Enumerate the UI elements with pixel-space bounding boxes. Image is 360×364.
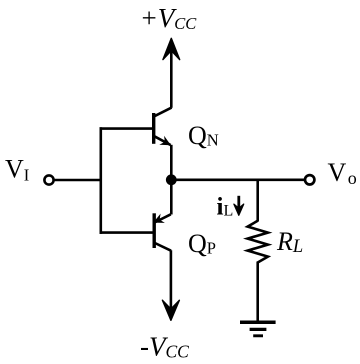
QP emitter wire from node	[170, 180, 173, 215]
wire input	[54, 179, 102, 182]
QN emitter wire to node	[170, 145, 173, 180]
wire load top	[256, 180, 259, 222]
wire QN base	[100, 127, 155, 130]
power arrow +VCC	[163, 38, 180, 108]
power arrow -VCC	[162, 250, 179, 320]
wire load bottom	[256, 262, 259, 323]
wire QP base	[100, 231, 155, 234]
current arrow iL	[234, 196, 244, 216]
wire input bus vertical	[100, 127, 103, 234]
transistor Q2 (PNP QP)	[153, 180, 171, 251]
QN base bar	[152, 113, 155, 144]
resistor RL	[248, 221, 268, 263]
QP emitter diagonal	[155, 214, 171, 222]
QP collector diagonal	[154, 243, 171, 251]
wire output	[171, 179, 305, 182]
ground	[240, 322, 276, 336]
QP base bar	[152, 213, 155, 248]
input terminal VI	[44, 175, 53, 184]
QP emitter arrow	[153, 214, 165, 223]
QN emitter arrow	[159, 136, 171, 146]
node output junction	[166, 174, 177, 185]
output terminal Vo	[305, 175, 314, 184]
QN collector diagonal	[154, 108, 171, 117]
QN emitter diagonal	[154, 136, 170, 145]
transistor Q1 (NPN QN)	[154, 108, 172, 180]
